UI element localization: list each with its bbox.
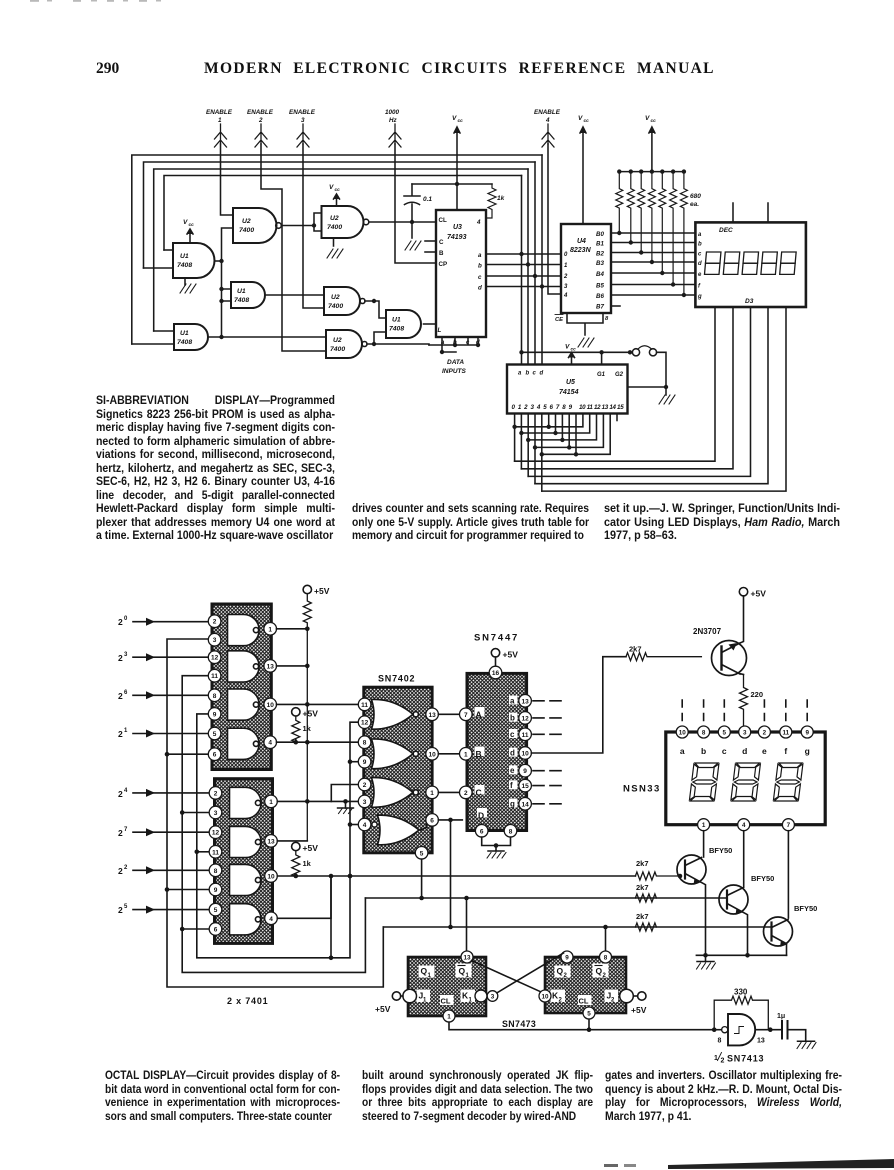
svg-text:CL: CL (441, 997, 451, 1006)
pin circles 7401 #1 left (208, 615, 221, 761)
wire bus line 3 (U1c.in1 to b column) (154, 169, 528, 331)
capacitor 0.1 decoupling (404, 184, 432, 222)
wire U5 output fan pair 0-5-10 (515, 414, 583, 462)
svg-text:3: 3 (363, 799, 367, 806)
wire b column to U5 pin b (527, 169, 529, 365)
svg-text:a: a (518, 371, 522, 377)
pin numbers NSN33 bottom (702, 822, 791, 829)
svg-text:1: 1 (702, 822, 706, 829)
display digit 1 (689, 763, 719, 801)
pin circle SN7447 16 (489, 666, 502, 679)
wire SN7413 output (756, 1029, 782, 1031)
wire dashed stubs segment g (533, 803, 561, 805)
IC block SN7447 (shaded) (467, 673, 527, 830)
wire feedback v3 stub pin11 block2 (197, 851, 209, 853)
pin circle FF1 K1 (475, 990, 487, 1002)
junction dot ground bracket (494, 843, 499, 848)
svg-text:6: 6 (213, 752, 217, 759)
wire ENABLE3 to U2c input2 (303, 144, 324, 308)
wire SN7402 pin1 to SN7447 C (438, 791, 458, 793)
svg-text:U2: U2 (331, 294, 340, 301)
wire Q1bar riser to T2 line (466, 898, 468, 952)
caption 2 column 2 (362, 1069, 593, 1123)
wire 7401#2 pin4 to x331 vertical (277, 876, 331, 918)
wire ENABLE4 to U4 address 4 (548, 144, 561, 294)
svg-text:BFY50: BFY50 (794, 904, 817, 913)
svg-text:9: 9 (213, 711, 217, 718)
svg-text:2: 2 (118, 866, 123, 876)
wire feedback v2 stub pin6 block2 (182, 928, 208, 930)
svg-text:6: 6 (430, 817, 434, 824)
wire digit select 2 to DEC (528, 307, 750, 476)
wire U5 output fan pair 3-8-13 (535, 414, 603, 484)
logic gate 7401 g5 (230, 787, 262, 818)
svg-text:b: b (701, 746, 706, 756)
logic gate 7402 g4 NOR (378, 815, 420, 845)
svg-text:2k7: 2k7 (636, 912, 649, 921)
wire c column to U5 pin c (534, 162, 536, 365)
wire SN7402 pin13 to SN7447 A (438, 713, 458, 715)
wire U1b output to U2c input1 (265, 294, 324, 296)
svg-text:11: 11 (211, 673, 218, 680)
svg-text:10: 10 (679, 729, 687, 736)
capacitor 1u (777, 1013, 806, 1041)
wire dashed stubs segment a (533, 700, 561, 702)
svg-text:10: 10 (541, 993, 549, 1000)
svg-text:d: d (478, 285, 482, 292)
junction dots U5 fan (512, 425, 578, 457)
pin circle FF1 13 (461, 951, 473, 963)
svg-text:16: 16 (492, 670, 500, 677)
svg-text:5: 5 (587, 1010, 591, 1017)
switch G1-G2 (632, 346, 656, 356)
junction dot clock line pin5 (587, 1027, 592, 1032)
svg-text:c: c (533, 371, 537, 377)
pin stub U3 C (425, 240, 436, 242)
IC U5 74154 decoder (507, 365, 628, 414)
svg-text:2: 2 (763, 729, 767, 736)
svg-text:9: 9 (565, 954, 569, 961)
resistor 220 below 2N3707 (740, 674, 764, 727)
svg-text:c: c (722, 746, 727, 756)
junction dot pin6 wire (448, 818, 453, 823)
wire U3 out d to U4 A3 (486, 286, 561, 288)
svg-text:CE: CE (555, 317, 564, 323)
svg-text:SN7447: SN7447 (474, 633, 519, 644)
junction dots on T1 base line (294, 874, 683, 879)
resistor 2k7 T3 (635, 912, 656, 931)
svg-text:7408: 7408 (177, 339, 192, 346)
svg-text:ENABLE: ENABLE (247, 109, 274, 116)
node ENABLE 3 input (289, 109, 316, 147)
svg-text:6: 6 (124, 690, 128, 696)
svg-text:a: a (510, 696, 515, 705)
node input 2^4 (118, 788, 208, 799)
svg-text:11: 11 (522, 732, 529, 739)
svg-text:a: a (478, 252, 482, 259)
wire segment d to 2k7 and 2N3707 base (531, 657, 626, 753)
junction dots ground rail (703, 953, 750, 958)
wire U3 out a to U4 A0 (486, 253, 561, 255)
logic gate U2b 7400 NAND (322, 206, 369, 238)
svg-text:BFY50: BFY50 (751, 874, 774, 883)
wire NSN33 pin1 to T1 collector (703, 831, 705, 857)
svg-text:15: 15 (521, 783, 529, 790)
pin circles 7401 #2 outputs (265, 795, 278, 924)
svg-text:B: B (476, 749, 482, 759)
svg-text:+5V: +5V (503, 650, 519, 660)
junction dots on pin12 vertical (348, 759, 353, 878)
svg-text:11: 11 (782, 729, 789, 736)
svg-text:D: D (478, 811, 484, 821)
wire Vcc rail to cap and resistor (412, 183, 492, 185)
pin circles 7401 #2 left (209, 787, 222, 936)
wire NSN33 pin4 to T2 collector (743, 831, 745, 887)
wire U4 B3 to DEC d (611, 261, 695, 263)
junction dot U2b input tie (312, 223, 316, 227)
svg-text:4: 4 (476, 219, 481, 226)
logic gate SN7413 Schmitt NAND (717, 1014, 765, 1045)
svg-text:2: 2 (363, 782, 367, 789)
pin numbers SN7447 left (464, 712, 468, 797)
svg-text:2: 2 (721, 1058, 725, 1065)
svg-text:13: 13 (521, 698, 529, 705)
pin circle FF2 9 (561, 951, 573, 963)
wire U4 B1 to DEC b (611, 242, 695, 244)
pin circles SN7402 right (415, 708, 438, 859)
svg-text:g: g (510, 799, 515, 808)
svg-text:U4: U4 (577, 238, 586, 245)
svg-text:5: 5 (213, 731, 217, 738)
svg-text:BFY50: BFY50 (709, 846, 732, 855)
svg-text:+5V: +5V (375, 1004, 391, 1014)
wire feedback loop v2 middle (7401 pin11 select) (182, 676, 365, 973)
svg-text:0123456789: 0123456789 (512, 404, 575, 411)
svg-text:B3: B3 (596, 260, 604, 267)
svg-text:B7: B7 (596, 304, 604, 311)
display digit 3 (773, 763, 803, 801)
svg-text:9: 9 (805, 729, 809, 736)
svg-text:B4: B4 (596, 271, 604, 278)
svg-text:d: d (742, 746, 747, 756)
caption 1 column 3 (604, 502, 840, 543)
pin circle FF1 3 (487, 991, 498, 1002)
svg-text:2k7: 2k7 (636, 859, 649, 868)
wire a column to U5 pin a (521, 176, 523, 365)
svg-text:+5V: +5V (314, 586, 330, 596)
ground below U1a (180, 278, 196, 293)
wire bus line 1 (U1c.in2 to d column) (132, 155, 542, 344)
pin numbers SN7402 left (361, 702, 369, 829)
svg-text:2: 2 (118, 653, 123, 663)
svg-text:V: V (183, 219, 188, 226)
svg-text:e: e (510, 766, 515, 775)
power +5V pullup 2 (1k) (292, 708, 319, 743)
svg-text:d: d (698, 261, 702, 267)
svg-text:b: b (698, 242, 702, 248)
svg-text:D3: D3 (745, 298, 754, 305)
transistor Q3 BFY50 (764, 904, 818, 955)
svg-text:c: c (698, 252, 702, 258)
svg-text:V: V (329, 184, 334, 191)
node 680 ea label (690, 193, 701, 208)
svg-text:cc: cc (651, 119, 657, 124)
svg-text:U3: U3 (453, 224, 462, 231)
ground at capacitor (797, 1041, 816, 1048)
transistor U2a 7400 NAND gate (233, 208, 281, 243)
svg-text:+5V: +5V (303, 709, 319, 719)
pin circles 7401 #1 outputs (264, 623, 277, 749)
IC block SN7473 FF1 (shaded) (408, 957, 486, 1016)
svg-text:+5V: +5V (303, 843, 319, 853)
wire SN7402 pin4 stub (350, 824, 358, 826)
junction dot clock line 330 tap (712, 1027, 717, 1032)
svg-text:0: 0 (124, 616, 128, 622)
wire FF2 pin5 drop (588, 1019, 590, 1029)
svg-text:7400: 7400 (330, 346, 345, 353)
svg-text:6: 6 (214, 927, 218, 934)
wire U2c output to U1d input1 (365, 301, 386, 318)
IC U4 8223N PROM (561, 224, 611, 313)
junction dots counter outputs to decoder columns (519, 252, 544, 289)
svg-text:cc: cc (584, 119, 590, 124)
wire resistor bank top rail (619, 171, 684, 173)
svg-text:1: 1 (430, 790, 434, 797)
wire dashed stubs segment e (533, 770, 561, 772)
svg-text:1: 1 (218, 117, 222, 124)
svg-text:1k: 1k (497, 195, 505, 202)
power +5V pullup 3 (1k) (292, 842, 319, 877)
svg-text:3: 3 (491, 993, 495, 1000)
resistor 2k7 T2 (634, 883, 656, 903)
power +5V at J1 (375, 992, 403, 1014)
wire 7401#1 pin13 to pullup (277, 665, 308, 667)
power Vcc above U1a (183, 219, 194, 243)
svg-text:e: e (762, 746, 767, 756)
transistor Q1 BFY50 (677, 846, 732, 955)
svg-text:1k: 1k (303, 724, 312, 733)
junction dot U2c output branch (372, 299, 376, 303)
pin circle FF2 J2 out (620, 989, 634, 1003)
svg-text:4: 4 (268, 740, 272, 747)
wire switch to ground (628, 352, 667, 387)
svg-text:74154: 74154 (559, 389, 579, 396)
node input 2^2 (118, 865, 208, 876)
svg-text:V: V (578, 115, 583, 122)
logic gate U1b 7408 AND (231, 282, 265, 308)
page number (96, 60, 119, 78)
wire U1d output to U3 L (424, 323, 437, 325)
svg-text:Q: Q (596, 966, 603, 976)
transistor Q2 BFY50 (719, 874, 774, 955)
svg-text:7408: 7408 (177, 262, 192, 269)
svg-text:2: 2 (118, 905, 123, 915)
svg-text:1: 1 (564, 263, 568, 269)
junction dots pullup vertical 1 (305, 627, 310, 804)
svg-text:Q: Q (459, 966, 466, 976)
junction dot cap to CL wire (410, 220, 414, 224)
svg-text:9: 9 (363, 759, 367, 766)
svg-text:8: 8 (509, 828, 513, 835)
power +5V pullup 1 (303, 585, 330, 840)
display NSN33 (666, 732, 825, 825)
wire NSN33 pin7 to T3 collector (787, 831, 789, 918)
svg-text:B5: B5 (596, 283, 604, 290)
IC block 7401 #1 (shaded) (212, 604, 271, 770)
svg-text:330: 330 (734, 988, 748, 997)
wire U4 CE bracket and ground (555, 313, 609, 347)
svg-text:B: B (439, 250, 444, 257)
svg-text:7400: 7400 (327, 224, 342, 231)
logic gate 7402 g2 NOR (372, 739, 419, 769)
svg-text:1000: 1000 (385, 109, 400, 116)
svg-text:DEC: DEC (719, 227, 733, 234)
svg-text:cc: cc (458, 119, 464, 124)
svg-text:f: f (784, 746, 787, 756)
svg-text:V: V (452, 115, 457, 122)
wire U4 B5 to DEC f (611, 284, 695, 286)
wire U5 output fan pair 2-7-12 (528, 414, 596, 477)
pin stub U3 B (425, 251, 436, 253)
pin circle FF2 10 (539, 990, 551, 1002)
power +5V at J2 (631, 992, 647, 1015)
svg-text:c: c (478, 274, 482, 281)
svg-text:b: b (510, 713, 515, 722)
wire dashed stubs segment b (533, 717, 561, 719)
svg-text:4: 4 (269, 916, 273, 923)
ground below rail (697, 955, 716, 969)
logic gate 7402 g1 NOR (372, 699, 419, 729)
svg-text:SN7402: SN7402 (378, 674, 415, 684)
junction dot x331 bottom (329, 956, 334, 961)
wire SN7447 ground bracket (482, 837, 511, 851)
svg-text:ea.: ea. (690, 201, 699, 208)
svg-text:8223N: 8223N (570, 247, 592, 254)
svg-text:10: 10 (521, 751, 529, 758)
svg-text:4: 4 (124, 788, 128, 794)
resistor 1k pullup at U3 (486, 184, 505, 218)
pin numbers NSN33 top (679, 729, 810, 736)
logic gate U2c 7400 NAND (324, 287, 365, 315)
svg-text:g: g (805, 746, 810, 756)
wire U2d output to U1d input2 and data bracket (367, 332, 429, 345)
wire d column to U5 pin d (541, 155, 543, 365)
junction dot ground node (664, 385, 668, 389)
svg-text:cc: cc (189, 223, 195, 228)
svg-text:U5: U5 (566, 379, 575, 386)
svg-text:2: 2 (563, 274, 568, 280)
svg-text:10: 10 (267, 702, 275, 709)
svg-text:7400: 7400 (328, 303, 343, 310)
junction dots T2 base line (419, 896, 469, 901)
svg-text:C: C (476, 788, 482, 798)
pin circles SN7447 bottom 6 and 8 (475, 825, 516, 838)
svg-text:3: 3 (214, 810, 218, 817)
logic gate 7401 g3 (228, 689, 260, 720)
wire cross coupling Q2 to K1 (498, 953, 564, 993)
caption 2 column 1 (105, 1069, 340, 1123)
power Vcc above U4 (578, 115, 589, 224)
wire 7401#2 pin13 to pullup vertical (277, 840, 307, 842)
node input 2^6 (118, 690, 208, 701)
svg-text:f: f (698, 284, 701, 290)
node FF2 labels (551, 964, 619, 1006)
pin numbers 7401 #2 outputs (267, 799, 275, 923)
power Vcc above resistor bank (645, 115, 656, 172)
wire dashed stubs above NSN33 pins (682, 700, 807, 721)
svg-text:4: 4 (563, 293, 568, 299)
node input 2^7 (118, 827, 208, 838)
svg-text:f: f (510, 781, 513, 790)
next page shadow bottom right (668, 1159, 894, 1169)
wire 7401#2 pin10 (T1 base line) (277, 875, 635, 877)
svg-text:G2: G2 (615, 372, 624, 378)
svg-text:8: 8 (214, 868, 218, 875)
IC U3 74193 counter (436, 210, 486, 346)
pin stub U4 B7 (611, 305, 620, 307)
logic gate 7401 g1 (228, 615, 260, 646)
svg-text:2: 2 (258, 117, 263, 124)
svg-text:12: 12 (211, 655, 219, 662)
caption 1 column 1 (96, 394, 335, 543)
ground below SN7447 (487, 851, 506, 858)
junction dots resistors to segment lines (617, 231, 686, 297)
svg-text:3: 3 (743, 729, 747, 736)
svg-text:680: 680 (690, 193, 701, 200)
wire U1a.in2 stub (144, 267, 174, 269)
transistor 2N3707 (693, 627, 747, 676)
wire G1 strobe from column a (522, 352, 631, 364)
pin numbers SN7402 right (420, 712, 436, 858)
wire feedback v1 stub pin6 block1 (167, 753, 208, 755)
svg-text:13: 13 (267, 838, 275, 845)
wire 1000Hz to U3 CP (395, 144, 436, 263)
wire DEC top stubs (733, 203, 768, 222)
svg-text:U1: U1 (180, 253, 189, 260)
svg-text:1μ: 1μ (777, 1013, 785, 1020)
svg-text:2: 2 (213, 619, 217, 626)
wire digit select 4 to DEC (542, 307, 786, 491)
svg-text:12: 12 (521, 715, 529, 722)
junction dot U2d output (372, 342, 376, 346)
wire tie vertical (U2a.in2/U1b inputs/U1c out net) (222, 228, 234, 337)
wire SN7402 pin6 to SN7447 D (438, 819, 462, 821)
node ENABLE 2 input (247, 109, 274, 147)
junction dot ground tap (343, 799, 348, 804)
wire U1c.in1 stub (154, 330, 174, 332)
wire clock line FF1 pin1 to SN7413 (449, 1022, 713, 1029)
node input 2^3 (118, 652, 208, 663)
wire U3 data input bracket (429, 337, 478, 352)
ground at SN7402 pin3 (338, 801, 354, 813)
junction dot pullup2 (294, 740, 299, 745)
wire dashed stubs segment f (533, 785, 561, 787)
logic gate U1d 7408 AND (386, 310, 421, 338)
wire U4 B0 to DEC a (611, 232, 695, 234)
svg-text:11: 11 (361, 702, 368, 709)
svg-text:0: 0 (564, 252, 568, 258)
svg-text:ENABLE: ENABLE (534, 109, 561, 116)
junction dot Vcc rail (455, 182, 459, 186)
pin circles SN7402 left (358, 698, 371, 831)
wire digit select 1 to DEC (521, 307, 733, 468)
svg-text:7: 7 (124, 827, 128, 833)
svg-text:U2: U2 (242, 218, 251, 225)
junction dots data bracket (440, 343, 480, 354)
power Vcc above U2b (329, 184, 340, 206)
svg-text:U1: U1 (237, 288, 246, 295)
svg-text:+5V: +5V (751, 589, 767, 599)
